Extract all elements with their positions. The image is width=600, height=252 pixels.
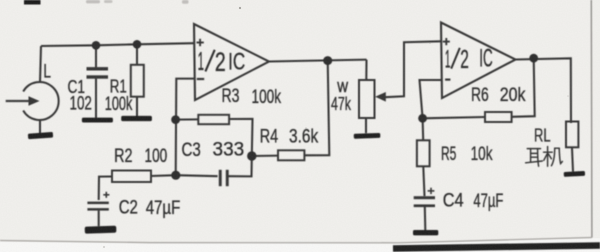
resistor R6 <box>485 112 512 122</box>
potentiometer W wiper arrow <box>375 92 386 102</box>
resistor R1 <box>131 65 144 97</box>
pickup L arrow <box>6 96 40 105</box>
ground under C2 <box>85 226 117 234</box>
node dot R1 top <box>133 40 142 49</box>
ground under W <box>354 133 381 139</box>
page border right edge <box>590 0 593 238</box>
top edge print fragment 2 <box>104 0 113 3</box>
potentiometer W body <box>359 80 375 118</box>
wire R5 lower stem <box>423 166 424 196</box>
top edge print fragment 3 <box>182 0 189 4</box>
resistor R5 <box>417 140 430 166</box>
node B dot <box>247 151 256 160</box>
capacitor C2 <box>87 202 108 211</box>
paper margin below bottom rule <box>0 238 600 252</box>
wire top rail <box>41 43 194 46</box>
wire C1 upper stem <box>95 45 97 67</box>
wire op-amp2 inverting input <box>420 80 442 118</box>
node A dot <box>171 115 180 124</box>
node dot op-amp2 output <box>529 54 538 63</box>
wire op-amp2 output to RL <box>516 58 572 123</box>
paper speckle <box>103 7 569 248</box>
wire R3 right down to node B <box>229 119 252 156</box>
wire C3 to node B <box>229 156 252 176</box>
wire RL lower stem <box>572 148 573 172</box>
page border bottom thick bar <box>393 246 600 249</box>
resistor R4 <box>278 150 304 160</box>
ground under R1 <box>121 116 152 121</box>
wire R3 left <box>176 118 198 120</box>
op-amp U1 plus input sign <box>197 39 204 46</box>
wire R1 lower stem <box>136 97 138 117</box>
pickup L circle <box>23 82 58 120</box>
top-left printing mark <box>24 0 41 5</box>
wire node B to R4 <box>252 155 278 157</box>
wire W wiper to op-amp2 input <box>385 41 441 97</box>
op-amp U2 plus input sign <box>443 38 450 45</box>
top edge print fragment 1 <box>86 0 100 3</box>
ground under L <box>28 132 53 139</box>
resistor R3 <box>198 115 229 124</box>
wire L bottom stem <box>39 120 41 133</box>
label erji (Chinese earphone) <box>526 147 563 167</box>
wire R5 upper stem <box>422 118 425 140</box>
wire op-amp1 output <box>269 60 367 62</box>
wire R1 upper stem <box>136 44 138 65</box>
wire R2 right to node C <box>151 174 176 177</box>
wire op-amp1 inverting input <box>176 79 194 176</box>
wire node C to C3 <box>176 175 218 176</box>
wire R6 right up to output <box>512 58 535 117</box>
op-amp U1 minus input sign <box>197 78 204 80</box>
resistor RL <box>566 122 578 148</box>
node C dot <box>171 171 180 180</box>
ground under C4 <box>413 230 438 235</box>
op-amp U2 triangle <box>441 23 516 99</box>
wire L top stem <box>40 46 41 83</box>
wire R2 left to C2 <box>99 177 112 201</box>
wire W top stem <box>365 60 367 80</box>
label 1/2 (U2) <box>445 45 469 74</box>
op-amp U1 triangle <box>194 24 269 100</box>
op-amp U2 minus input sign <box>445 78 450 80</box>
wire C1 lower stem <box>95 79 97 118</box>
ground under RL <box>564 171 585 177</box>
node dot output rail <box>323 56 332 65</box>
wire C4 lower stem <box>424 207 427 230</box>
label 1/2 (U1) <box>198 46 226 77</box>
wire R4 right up to output rail <box>304 61 329 156</box>
resistor R2 <box>112 171 151 183</box>
capacitor C4 <box>414 196 435 207</box>
wire node D to R6 <box>423 117 485 118</box>
C4 polarity plus <box>428 188 435 194</box>
wire W bottom stem <box>365 118 367 133</box>
node dot C1 top <box>92 41 101 50</box>
wire C2 lower stem <box>98 211 100 227</box>
capacitor C3 <box>219 170 229 186</box>
page border bottom thin line <box>0 238 592 243</box>
ground under C1 <box>82 118 113 123</box>
C2 polarity plus <box>103 192 109 198</box>
node D dot <box>418 114 427 123</box>
capacitor C1 <box>87 67 109 79</box>
